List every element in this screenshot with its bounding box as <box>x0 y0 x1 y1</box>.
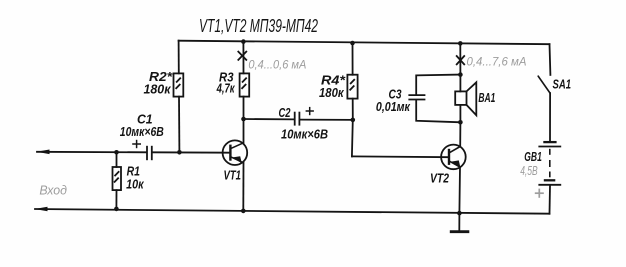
wire upper input line left of C1 <box>37 151 147 154</box>
battery plus sign <box>535 189 544 198</box>
capacitor C2 <box>295 112 300 126</box>
wire C2 line right <box>300 119 353 121</box>
resistor R1 <box>113 167 122 190</box>
svg-text:4,5В: 4,5В <box>520 164 538 178</box>
svg-text:10к: 10к <box>126 177 144 191</box>
wire VT2 collector lead <box>459 122 461 146</box>
svg-text:C2: C2 <box>279 106 291 120</box>
svg-text:180к: 180к <box>319 86 344 100</box>
measure point X on R3 column <box>238 51 247 61</box>
svg-text:VT1: VT1 <box>224 168 242 182</box>
wire SA1 top stub <box>549 44 552 75</box>
battery GB1 <box>538 142 561 185</box>
input arrow lower <box>35 207 48 212</box>
wire R4 column top <box>352 43 354 75</box>
transistor VT1 <box>223 140 248 165</box>
node C2 R4 junction <box>351 118 356 123</box>
capacitor C3 <box>408 95 425 99</box>
svg-text:180к: 180к <box>144 83 172 97</box>
wire VT2 emitter lead <box>458 167 461 213</box>
svg-text:VT2: VT2 <box>430 172 449 186</box>
wire C2 junction down to VT2 base line <box>351 120 354 156</box>
node top rail speaker junction <box>458 41 463 46</box>
wire upper input line right of C1 <box>152 151 230 153</box>
svg-text:0,4...7,6 мА: 0,4...7,6 мА <box>467 55 527 69</box>
svg-text:4,7к: 4,7к <box>216 82 235 96</box>
ground <box>450 230 470 233</box>
capacitor C1 <box>147 146 152 160</box>
wire ground stub <box>458 213 460 231</box>
svg-text:10мк×6В: 10мк×6В <box>281 127 328 141</box>
transistor VT2 <box>441 145 466 170</box>
wire top rail <box>179 41 550 45</box>
wire VT2 base line <box>352 155 449 158</box>
resistor R3 <box>240 73 250 96</box>
wire speaker bottom lead <box>459 105 461 122</box>
resistor R2 <box>174 73 184 96</box>
wire R4 column bottom <box>352 99 354 120</box>
VT2 emitter arrow <box>451 160 460 167</box>
wire battery bottom to rail <box>549 186 552 214</box>
node bottom rail R1 junction <box>114 207 119 212</box>
resistor R4 <box>347 75 357 99</box>
wire R1 column bottom <box>115 190 117 209</box>
wire VT1 emitter lead <box>242 163 244 211</box>
svg-text:10мк×6В: 10мк×6В <box>120 125 164 139</box>
wire R2 column top <box>178 41 180 74</box>
svg-text:SA1: SA1 <box>553 77 572 91</box>
svg-text:0,01мк: 0,01мк <box>376 100 411 114</box>
wire C3 bottom branch <box>416 100 460 122</box>
wire R3 column top <box>242 42 244 74</box>
speaker BA1 <box>455 82 476 115</box>
measure point X on speaker column <box>456 55 465 65</box>
node top rail R3 junction <box>241 39 246 44</box>
node bottom rail VT1 emitter junction <box>241 209 246 214</box>
svg-text:GB1: GB1 <box>524 150 542 164</box>
svg-text:VT1,VT2 МП39-МП42: VT1,VT2 МП39-МП42 <box>199 16 318 36</box>
svg-text:0,4...0,6 мА: 0,4...0,6 мА <box>248 58 306 72</box>
wire SA1 bottom to battery <box>549 93 551 141</box>
C1 plus sign <box>132 140 141 148</box>
wire speaker column top <box>459 43 461 74</box>
wire R1 column top <box>116 152 118 167</box>
wire R3 to C2 junction <box>243 97 245 119</box>
wire VT1 collector lead <box>243 119 245 143</box>
C2 plus sign <box>306 107 314 115</box>
VT1 emitter arrow <box>233 156 242 163</box>
wire C3 top branch <box>416 75 460 95</box>
input arrow upper <box>37 150 50 155</box>
wire C2 line left <box>244 118 295 120</box>
node input R2 junction <box>177 150 182 155</box>
node input R1 junction <box>114 150 119 155</box>
node top rail R4 junction <box>350 41 355 46</box>
node speaker top C3 junction <box>458 72 463 77</box>
wire speaker top lead <box>459 75 461 92</box>
node VT1 collector C2 junction <box>241 117 246 122</box>
wire R2 column bottom <box>178 97 180 153</box>
switch SA1 blade <box>538 76 550 93</box>
node speaker bottom C3 junction <box>458 120 463 125</box>
wire bottom rail <box>35 209 549 214</box>
node bottom rail ground junction <box>457 211 462 216</box>
svg-text:BA1: BA1 <box>478 91 495 105</box>
svg-text:Вход: Вход <box>39 183 67 198</box>
